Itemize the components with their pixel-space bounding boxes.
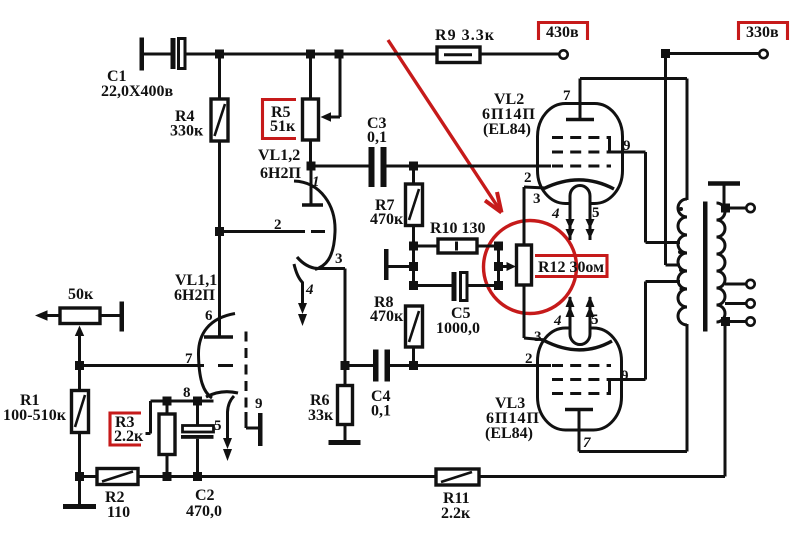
junction top rail / R5 wiper	[335, 50, 344, 59]
wire VL1,1 shield pin 9 to chassis	[246, 412, 258, 428]
svg-text:VL1,2: VL1,2	[258, 147, 300, 164]
resistor R7	[406, 166, 423, 226]
chassis bar at R7/R8 node	[384, 249, 414, 280]
svg-text:22,0X400в: 22,0X400в	[101, 83, 174, 100]
VL1,1 shield dashed line	[245, 332, 248, 413]
svg-text:4: 4	[305, 282, 314, 298]
red box around label R3	[110, 413, 141, 445]
R5 wiper arm to top rail	[321, 54, 341, 122]
svg-text:2.2к: 2.2к	[114, 428, 144, 445]
svg-text:1: 1	[312, 174, 320, 190]
VL2 grid 3 dashes	[552, 136, 611, 139]
wire top rail to R5	[309, 54, 312, 99]
svg-text:470,0: 470,0	[186, 503, 222, 520]
svg-text:51к: 51к	[270, 118, 296, 135]
junction R8 / C5	[409, 281, 418, 290]
transformer core	[703, 202, 708, 332]
svg-text:33к: 33к	[308, 407, 334, 424]
VL2 grid strap	[608, 138, 611, 153]
resistor R10	[414, 239, 499, 253]
VL1,2 heater arrow pin 4	[298, 303, 307, 326]
svg-text:9: 9	[255, 396, 263, 412]
VL3 grid 2 dashes	[552, 378, 611, 381]
svg-text:6: 6	[205, 308, 213, 324]
svg-text:470к: 470к	[370, 308, 404, 325]
svg-text:3: 3	[533, 191, 541, 207]
svg-text:9: 9	[621, 368, 629, 384]
wire R4 to grid node	[218, 141, 221, 232]
pentode VL3 envelope	[538, 328, 622, 430]
VL1,1 heater lead	[228, 396, 235, 440]
junction top rail / R5	[306, 50, 315, 59]
junction cathode / C2	[193, 397, 202, 406]
resistor R8	[406, 306, 423, 347]
svg-text:6Н2П: 6Н2П	[260, 165, 301, 182]
wiper column wire of R12 network	[497, 246, 500, 286]
R3 tap hook	[146, 401, 151, 434]
junction cathode / R3	[163, 397, 172, 406]
svg-text:9: 9	[623, 138, 631, 154]
svg-text:50к: 50к	[68, 286, 94, 303]
bottom rail wire	[138, 475, 436, 478]
junction R7 / R10	[409, 242, 418, 251]
svg-text:C2: C2	[195, 487, 215, 504]
svg-text:8: 8	[183, 385, 191, 401]
potentiometer R5	[303, 99, 319, 140]
highlight circle around R12	[484, 221, 577, 314]
wire VL2 anode to output transformer	[580, 79, 687, 201]
ground symbol below R6	[329, 440, 361, 445]
VL3 grid 3 dashes	[552, 392, 611, 395]
wire to 330v terminal	[666, 52, 760, 55]
wire secondary tap 2	[725, 283, 747, 286]
chassis bar at pin 9	[258, 413, 263, 446]
wire C1 input	[143, 53, 172, 56]
svg-text:330к: 330к	[170, 123, 204, 140]
svg-text:2: 2	[274, 217, 282, 233]
svg-text:470к: 470к	[370, 211, 404, 228]
svg-text:430в: 430в	[546, 24, 579, 41]
capacitor C1	[171, 38, 186, 69]
input arrow at 50k	[35, 310, 60, 320]
R12 wiper arrow	[499, 262, 517, 271]
VL3 envelope heater arch	[570, 325, 590, 345]
svg-text:2: 2	[524, 170, 532, 186]
resistor R4	[211, 99, 228, 141]
wire top rail to R4	[218, 54, 221, 99]
VL3 anode plate pin 7	[565, 410, 593, 452]
triode VL1,1 envelope	[198, 314, 235, 399]
wire 50k to chassis	[100, 314, 120, 317]
VL2 cathode	[544, 180, 614, 189]
resistor R9	[437, 47, 480, 63]
svg-text:(EL84): (EL84)	[483, 121, 531, 138]
svg-text:4: 4	[551, 206, 560, 222]
VL1,2 heater lead	[294, 264, 303, 305]
capacitor C2	[181, 401, 214, 477]
VL3 heater lead pin 4	[566, 296, 575, 333]
red box around node label 430v	[539, 23, 588, 41]
wire VL1,1 anode stem	[218, 232, 221, 337]
svg-text:5: 5	[214, 418, 222, 434]
svg-text:110: 110	[107, 504, 130, 521]
VL2 grid 1 dashes	[552, 165, 611, 168]
wire R5 to VL1,2 anode	[309, 140, 312, 166]
triode VL1,2 envelope	[294, 181, 335, 270]
svg-text:R9 3.3к: R9 3.3к	[435, 27, 495, 44]
svg-text:3: 3	[335, 251, 343, 267]
red box around label R12	[535, 256, 607, 277]
red annotation arrow pointing to R12	[388, 40, 502, 213]
svg-text:(EL84): (EL84)	[485, 425, 533, 442]
transformer polarity dot 2	[678, 250, 682, 254]
wire top rail C1 to R9	[185, 53, 438, 56]
junction C3 / R7	[409, 162, 418, 171]
wire R7 to R10 node	[412, 226, 415, 286]
resistor R11	[436, 469, 479, 485]
junction C4 / R8	[409, 361, 418, 370]
junction secondary bottom tap	[721, 317, 730, 326]
output transformer secondary winding	[717, 203, 726, 322]
capacitor C4	[345, 350, 414, 382]
chassis bar at 50k	[120, 302, 125, 332]
svg-text:4: 4	[553, 313, 562, 329]
junction rail / R3	[163, 472, 172, 481]
red box around label R5	[263, 100, 297, 139]
junction wiper / R1 / VL1,1 grid	[75, 361, 84, 370]
VL2 anode plate pin 7	[566, 79, 594, 120]
svg-text:100-510к: 100-510к	[3, 407, 67, 424]
resistor R6	[338, 366, 353, 442]
wire R8 to C4 node	[412, 347, 415, 366]
wire secondary tap 3	[725, 302, 747, 305]
capacitor C3	[369, 147, 387, 187]
junction secondary top tap	[721, 204, 730, 213]
transformer polarity dot 3	[679, 268, 683, 272]
resistor R2	[80, 469, 139, 485]
output terminal 1	[746, 204, 754, 212]
ground symbol bottom left	[63, 504, 96, 509]
potentiometer 50k volume	[60, 308, 100, 324]
ground wire bottom left	[78, 477, 81, 507]
grid dash VL1,2 pin 2	[311, 230, 325, 233]
junction 330v rail	[661, 49, 670, 58]
VL2 envelope heater arch	[570, 186, 590, 207]
bottom rail wire to transformer	[479, 322, 725, 477]
junction R10 / wiper column	[494, 242, 503, 251]
svg-text:3: 3	[534, 329, 542, 345]
terminal 330v	[759, 50, 767, 58]
50k wiper arrow	[75, 326, 84, 366]
potentiometer R12	[517, 245, 532, 285]
output terminal 3	[746, 299, 754, 307]
wire to VL3 grid	[414, 364, 552, 367]
wire R12 top to VL2 cathode	[524, 187, 546, 245]
wire secondary top tap	[726, 207, 747, 210]
wire VL3 screen pin 9	[610, 282, 681, 380]
junction top rail / R4	[215, 50, 224, 59]
terminal 430v	[559, 50, 567, 58]
wire VL3 anode to output transformer	[579, 324, 687, 452]
wire grid of VL1,2	[220, 230, 306, 233]
capacitor C5	[414, 272, 499, 301]
svg-text:5: 5	[591, 312, 599, 328]
chassis bar above secondary	[708, 184, 740, 209]
output terminal 2	[746, 280, 754, 288]
wire R9 to 430v terminal	[480, 53, 559, 56]
wire cathode down to R6 node	[344, 269, 347, 366]
junction R4 / VL1,2 grid	[215, 227, 224, 236]
VL3 heater lead pin 5	[586, 296, 595, 333]
output transformer primary winding	[678, 199, 687, 325]
svg-text:R12 30ом: R12 30ом	[538, 259, 604, 276]
VL1,1 cathode	[206, 392, 238, 397]
red box around node label 330v	[739, 23, 788, 41]
svg-text:1000,0: 1000,0	[436, 320, 480, 337]
svg-text:7: 7	[185, 351, 193, 367]
junction C5 / wiper column	[494, 281, 503, 290]
svg-text:0,1: 0,1	[367, 129, 387, 146]
svg-text:0,1: 0,1	[371, 403, 391, 420]
resistor R1	[72, 366, 89, 477]
wire secondary bottom tap	[726, 320, 747, 323]
svg-text:7: 7	[583, 435, 591, 451]
wire C3 to VL2 grid	[387, 165, 552, 168]
wire VL1,1 cathode node	[151, 400, 214, 403]
wire R12 bottom to VL3 cathode	[524, 285, 546, 340]
transformer polarity dot 1	[679, 207, 683, 211]
junction R6 / C4	[341, 361, 350, 370]
VL2 heater lead pin 5	[586, 200, 595, 240]
VL2 heater lead pin 4	[566, 200, 575, 240]
grid dash VL1,1 pin 7	[218, 364, 233, 367]
svg-text:330в: 330в	[746, 24, 779, 41]
wire anode node to C3	[311, 165, 370, 168]
pentode VL2 envelope	[538, 104, 623, 204]
junction rail / C2	[193, 472, 202, 481]
wire VL1,2 cathode pin 3	[317, 267, 345, 270]
VL3 grid strap	[608, 380, 611, 394]
VL2 grid 2 dashes	[552, 151, 611, 154]
wire B+ 330v to primary centre tap	[666, 54, 681, 266]
svg-text:6Н2П: 6Н2П	[174, 287, 215, 304]
svg-text:R10 130: R10 130	[430, 220, 486, 237]
VL3 cathode	[544, 341, 612, 350]
VL1,2 cathode	[297, 257, 317, 269]
junction R5 / anode / C3	[307, 162, 316, 171]
transformer polarity dot 4	[680, 287, 684, 291]
junction chassis stem	[409, 262, 418, 271]
VL3 grid 1 dashes	[552, 364, 611, 367]
svg-text:7: 7	[563, 88, 571, 104]
input terminal bar at C1	[140, 38, 145, 71]
svg-text:2.2к: 2.2к	[441, 505, 471, 522]
junction wiper arm	[494, 262, 503, 271]
VL1,1 heater arrow pin 5	[223, 438, 232, 461]
VL1,2 anode plate	[302, 166, 323, 205]
svg-text:5: 5	[592, 205, 600, 221]
wire VL2 screen pin 9	[610, 152, 681, 243]
wire grid of VL1,1	[80, 364, 205, 367]
junction ground / R2	[75, 472, 84, 481]
VL1,1 anode plate pin 6	[204, 335, 233, 338]
output terminal 4	[746, 317, 754, 325]
resistor R3	[159, 401, 175, 477]
